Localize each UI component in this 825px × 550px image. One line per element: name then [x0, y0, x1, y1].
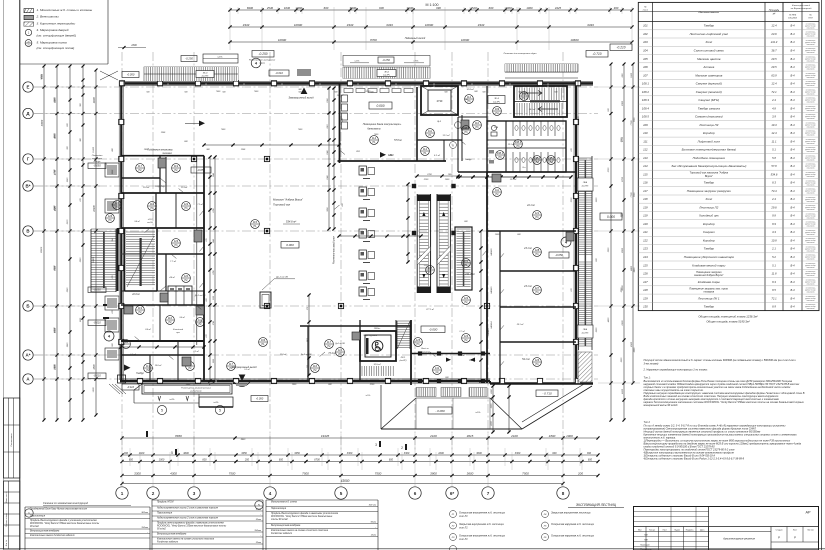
- svg-text:Подпись: Подпись: [686, 530, 694, 532]
- svg-text:118: 118: [643, 197, 648, 201]
- svg-text:опасности: опасности: [807, 209, 815, 211]
- bottom dimension chain totals: [122, 437, 598, 439]
- svg-text:600: 600: [379, 6, 384, 10]
- svg-text:10900: 10900: [278, 38, 287, 42]
- svg-text:534.6: 534.6: [771, 172, 778, 176]
- svg-text:12.4: 12.4: [771, 24, 777, 28]
- svg-text:В-4: В-4: [790, 296, 795, 300]
- left protrusion entry boxes: [105, 163, 119, 177]
- exterior wall left: [120, 81, 122, 380]
- top dimension chain 2: [230, 26, 632, 28]
- svg-text:-0.250: -0.250: [185, 57, 193, 61]
- svg-text:опасности: опасности: [807, 52, 815, 54]
- svg-text:125: 125: [416, 338, 421, 342]
- room tag 111: [196, 318, 205, 327]
- svg-text:не категори-: не категори-: [806, 114, 816, 116]
- svg-text:3300: 3300: [134, 471, 141, 475]
- svg-text:300: 300: [124, 452, 129, 455]
- svg-text:Решетки для вытирания обуви: Решетки для вытирания обуви: [504, 52, 538, 55]
- exterior wall top: [120, 82, 593, 85]
- svg-text:Тамбур: Тамбур: [704, 305, 715, 309]
- svg-text:Изм: Изм: [638, 530, 642, 532]
- sheet border: [19, 0, 21, 550]
- svg-text:111: 111: [495, 188, 499, 192]
- room 111/112 partition: [417, 139, 462, 141]
- svg-text:Лифтовой холл: Лифтовой холл: [697, 139, 721, 143]
- svg-text:109: 109: [522, 92, 527, 96]
- svg-text:5: 5: [171, 451, 173, 455]
- bottom big canopy trapezoid: [381, 428, 522, 430]
- svg-text:7700: 7700: [631, 120, 633, 126]
- svg-text:В-4: В-4: [790, 82, 795, 86]
- extra tags: [426, 266, 435, 275]
- vent shafts dark: [158, 158, 166, 168]
- svg-text:108.3: 108.3: [642, 98, 649, 102]
- svg-text:руемые по взр.: руемые по взр.: [804, 248, 816, 250]
- bottom wall inner line: [120, 378, 490, 380]
- portico recessed wall: [411, 353, 490, 355]
- svg-text:2760: 2760: [426, 174, 432, 176]
- svg-text:30000: 30000: [41, 246, 43, 253]
- svg-text:Холл: Холл: [704, 40, 712, 44]
- svg-text:-0.050: -0.050: [197, 168, 205, 172]
- svg-text:4500: 4500: [53, 133, 56, 139]
- svg-text:ШМБ14: ШМБ14: [490, 321, 493, 329]
- svg-text:В-4: В-4: [790, 32, 795, 36]
- svg-text:5: 5: [161, 409, 163, 413]
- svg-text:6900: 6900: [631, 341, 633, 347]
- svg-text:5.2 м²: 5.2 м²: [130, 353, 136, 356]
- svg-text:опасности: опасности: [807, 77, 815, 79]
- svg-text:Салон сотовой связи: Салон сотовой связи: [694, 49, 725, 53]
- svg-text:В-4: В-4: [790, 106, 795, 110]
- svg-text:Профиль Вентилируемого фасада: Профиль Вентилируемого фасада с навесным…: [271, 512, 338, 515]
- svg-text:опасности: опасности: [807, 143, 815, 145]
- svg-text:113: 113: [643, 156, 648, 160]
- svg-text:тележек: тележек: [162, 153, 173, 155]
- svg-text:Санузел: Санузел: [703, 230, 715, 234]
- svg-text:8.3: 8.3: [772, 181, 776, 185]
- svg-text:5000: 5000: [54, 327, 56, 333]
- svg-text:3300: 3300: [347, 452, 353, 455]
- svg-text:Надземный жилой: Надземный жилой: [405, 37, 426, 40]
- interior dim chain near escalators: [407, 184, 409, 262]
- svg-text:122: 122: [464, 296, 469, 300]
- svg-text:600: 600: [588, 458, 593, 461]
- svg-text:не категори-: не категори-: [806, 98, 816, 100]
- interior h chain cluster bottom: [121, 346, 204, 348]
- room tag 120: [182, 274, 191, 283]
- svg-text:123: 123: [643, 247, 648, 251]
- svg-text:5.1 м²: 5.1 м²: [244, 368, 250, 371]
- svg-text:122: 122: [184, 202, 189, 206]
- svg-text:3300: 3300: [515, 452, 521, 455]
- svg-text:Санузел (мужской): Санузел (мужской): [696, 82, 722, 86]
- svg-text:В-4: В-4: [790, 148, 795, 152]
- svg-text:ЛБ4: ЛБ4: [582, 328, 588, 331]
- svg-text:Тамбур: Тамбур: [136, 373, 145, 375]
- svg-text:опасности: опасности: [807, 242, 815, 244]
- svg-text:19.3 м²: 19.3 м²: [529, 108, 536, 111]
- svg-text:108.1: 108.1: [534, 156, 541, 160]
- svg-text:29.6: 29.6: [770, 205, 777, 209]
- svg-text:ШМБ15: ШМБ15: [491, 286, 493, 294]
- top wall inner line: [120, 80, 593, 82]
- section cut marks bottom: [146, 431, 148, 437]
- misc bottom dims verticals: [492, 386, 494, 432]
- svg-text:НВ1: НВ1: [388, 153, 394, 157]
- svg-text:300мм: 300мм: [141, 512, 148, 514]
- top dimension chain 3: [230, 41, 632, 43]
- svg-text:Холодный цех: Холодный цех: [698, 214, 719, 218]
- svg-text:57.8 м²: 57.8 м²: [394, 139, 402, 142]
- axis letter circles left: [23, 82, 33, 92]
- cluster lower walls: [121, 253, 204, 255]
- svg-text:5.2: 5.2: [772, 255, 776, 259]
- svg-text:8.3: 8.3: [772, 280, 776, 284]
- svg-text:Композитные панели Fundermax к: Композитные панели Fundermax кабелит: [30, 534, 75, 537]
- svg-text:руемые по взр.: руемые по взр.: [804, 273, 816, 275]
- svg-text:опасности: опасности: [807, 127, 815, 129]
- left dimension chains: [43, 66, 45, 420]
- svg-text:129: 129: [643, 296, 648, 300]
- svg-text:Санузел (МГН): Санузел (МГН): [698, 98, 719, 102]
- svg-text:1: 1: [121, 491, 124, 496]
- detail table 3: [265, 500, 267, 550]
- svg-text:В-4: В-4: [790, 164, 795, 168]
- svg-text:6: 6: [414, 491, 417, 496]
- svg-text:Аптека: Аптека: [702, 65, 714, 69]
- svg-text:руемые по взр.: руемые по взр.: [804, 100, 816, 102]
- room tag 124: [113, 201, 122, 210]
- svg-text:12.1 м²: 12.1 м²: [508, 143, 515, 146]
- svg-text:В-4: В-4: [790, 222, 795, 226]
- svg-text:Кладовая тары: Кладовая тары: [698, 280, 721, 284]
- svg-text:руемые по взр.: руемые по взр.: [804, 75, 816, 77]
- svg-text:4300: 4300: [170, 471, 177, 475]
- svg-text:10900: 10900: [294, 23, 303, 27]
- legend swatch brick: [24, 22, 34, 26]
- svg-text:В-4: В-4: [790, 230, 795, 234]
- svg-text:Дв-1 см ОВ: Дв-1 см ОВ: [194, 295, 206, 297]
- top level boxes: [252, 51, 274, 58]
- svg-text:2.4: 2.4: [771, 98, 776, 102]
- svg-text:12мм: 12мм: [256, 542, 262, 544]
- bank shelving row against top wall: [344, 89, 353, 93]
- svg-text:-0.250: -0.250: [258, 52, 267, 56]
- svg-text:Монолитная ж.б. стена: Монолитная ж.б. стена: [271, 502, 297, 504]
- top dimension chain 1: [230, 9, 632, 11]
- svg-text:Холодный: Холодный: [172, 328, 184, 331]
- svg-text:В-4: В-4: [790, 305, 795, 309]
- svg-text:600: 600: [489, 6, 494, 10]
- cluster walls y305-381: [121, 304, 204, 306]
- axis circle 4 top: [251, 58, 261, 68]
- svg-text:Листов: Листов: [807, 530, 814, 532]
- wall columns top: [119, 81, 124, 86]
- svg-text:опасности: опасности: [807, 300, 815, 302]
- svg-text:руемые по взр.: руемые по взр.: [804, 232, 816, 234]
- entry grate top-mid: [343, 67, 430, 78]
- svg-text:Тамбур санузла: Тамбур санузла: [698, 106, 720, 110]
- svg-text:5.1: 5.1: [772, 148, 776, 152]
- svg-text:Инв. №: Инв. №: [5, 540, 8, 546]
- door leaf arcs in cluster: [160, 178, 165, 183]
- svg-text:В-4: В-4: [790, 98, 795, 102]
- svg-text:2400: 2400: [53, 364, 56, 371]
- svg-text:руемые по взр.: руемые по взр.: [804, 50, 816, 52]
- svg-text:не категори-: не категори-: [806, 131, 816, 133]
- svg-text:121: 121: [535, 211, 540, 215]
- svg-text:руемые по взр.: руемые по взр.: [804, 125, 816, 127]
- svg-text:(см.КР): (см.КР): [582, 186, 589, 188]
- svg-text:50мм: 50мм: [371, 521, 377, 523]
- svg-text:119: 119: [643, 214, 648, 218]
- svg-text:3900: 3900: [430, 471, 437, 475]
- svg-text:В-4: В-4: [790, 272, 795, 276]
- svg-text:8.9: 8.9: [772, 305, 776, 309]
- svg-text:руемые по взр.: руемые по взр.: [804, 174, 816, 176]
- svg-text:не категори-: не категори-: [806, 40, 816, 42]
- svg-text:Общая площадь этажа 5190.3м²: Общая площадь этажа 5190.3м²: [706, 320, 750, 324]
- external stair right: [578, 156, 580, 350]
- svg-text:руемые по взр.: руемые по взр.: [804, 166, 816, 168]
- svg-text:опасности: опасности: [807, 151, 815, 153]
- svg-text:2: 2: [152, 491, 155, 496]
- svg-text:0.000: 0.000: [607, 215, 615, 219]
- svg-text:7.1 м²: 7.1 м²: [197, 203, 203, 206]
- svg-text:3615: 3615: [467, 434, 474, 438]
- svg-text:11600: 11600: [94, 96, 96, 103]
- svg-text:Эвакуационный выход: Эвакуационный выход: [288, 97, 314, 100]
- exterior wall bottom right wing: [490, 382, 593, 385]
- svg-text:-0.050: -0.050: [127, 73, 135, 77]
- svg-text:- 0.710: - 0.710: [542, 392, 552, 396]
- svg-text:ROCKWOOL "Venty Баттс"150мм: ROCKWOOL "Venty Баттс"150мм жесткие база…: [271, 515, 333, 518]
- svg-text:2100: 2100: [491, 403, 493, 409]
- svg-text:21: 21: [27, 45, 29, 47]
- section cut marks left: [103, 304, 109, 306]
- svg-text:126: 126: [108, 214, 113, 218]
- legend door mark circle: [25, 29, 31, 35]
- svg-text:В-4: В-4: [790, 255, 795, 259]
- svg-text:120: 120: [643, 222, 648, 226]
- room tag 123: [172, 239, 181, 248]
- svg-text:119: 119: [138, 306, 143, 310]
- right dimension chains: [610, 64, 612, 420]
- svg-text:не категори-: не категори-: [806, 238, 816, 240]
- svg-text:В-4: В-4: [790, 115, 795, 119]
- svg-text:3333: 3333: [478, 23, 485, 27]
- svg-text:5000: 5000: [41, 74, 43, 80]
- svg-text:В-4: В-4: [790, 139, 795, 143]
- svg-text:опасности: опасности: [807, 308, 815, 310]
- svg-text:А*: А*: [26, 353, 31, 358]
- svg-text:2540: 2540: [266, 6, 274, 10]
- svg-text:125: 125: [643, 263, 648, 267]
- right wing west wall: [486, 172, 488, 383]
- svg-text:10.8 м²: 10.8 м²: [155, 364, 162, 367]
- svg-text:Санузел (персонал): Санузел (персонал): [695, 115, 723, 119]
- svg-text:В-4: В-4: [790, 73, 795, 77]
- dim chain x309: [308, 295, 310, 375]
- svg-text:не категори-: не категори-: [806, 296, 816, 298]
- svg-text:Лестнично-лифтовой узел: Лестнично-лифтовой узел: [688, 32, 728, 36]
- svg-text:Ветрозащитная мембрана: Ветрозащитная мембрана: [157, 534, 187, 536]
- svg-text:2300: 2300: [130, 44, 137, 47]
- svg-text:не категори-: не категори-: [806, 73, 816, 75]
- svg-text:4.8 м²: 4.8 м²: [169, 276, 175, 279]
- svg-text:72.1: 72.1: [771, 90, 777, 94]
- title block frame: [634, 507, 819, 550]
- interior dim chain along bank wall: [333, 88, 335, 229]
- svg-text:5. Маркировка полов: 5. Маркировка полов: [37, 40, 68, 44]
- svg-text:опасности: опасности: [807, 184, 815, 186]
- svg-text:Профиль НГ1М: Профиль НГ1М: [157, 501, 173, 504]
- room tag 126: [106, 214, 115, 223]
- svg-text:руемые по взр.: руемые по взр.: [804, 257, 816, 259]
- svg-text:не категори-: не категори-: [806, 279, 816, 281]
- svg-text:107: 107: [643, 73, 648, 77]
- svg-text:не категори-: не категори-: [806, 197, 816, 199]
- svg-text:i=6%: i=6%: [355, 61, 360, 63]
- svg-text:11.1: 11.1: [771, 139, 777, 143]
- right wing room tags: [533, 211, 542, 220]
- svg-text:2100: 2100: [423, 179, 429, 181]
- extension lines top chain ticks: [237, 7, 239, 14]
- svg-text:4. Маркировка дверей: 4. Маркировка дверей: [37, 28, 69, 32]
- svg-text:1000: 1000: [566, 434, 573, 438]
- cluster mid walls: [121, 227, 204, 229]
- svg-text:Проверил: Проверил: [640, 545, 650, 547]
- svg-text:108.2: 108.2: [548, 156, 555, 160]
- svg-text:123: 123: [174, 239, 179, 243]
- svg-text:не категори-: не категори-: [806, 230, 816, 232]
- svg-text:11.9 м²: 11.9 м²: [181, 186, 188, 189]
- svg-text:11.8: 11.8: [771, 272, 777, 276]
- svg-text:руемые по взр.: руемые по взр.: [804, 281, 816, 283]
- svg-text:опасности: опасности: [807, 176, 815, 178]
- atm row: [342, 95, 348, 102]
- svg-text:Магазин цветов: Магазин цветов: [697, 57, 721, 61]
- svg-text:73.4: 73.4: [771, 189, 777, 193]
- svg-text:Fundermax кабелит: Fundermax кабелит: [157, 541, 178, 544]
- detail table 1: [24, 507, 26, 550]
- svg-text:опасности: опасности: [807, 93, 815, 95]
- checkout desks row: [359, 166, 367, 175]
- svg-text:11600: 11600: [93, 146, 95, 153]
- svg-text:2. Вентшахты: 2. Вентшахты: [36, 15, 60, 19]
- svg-text:Закрытая внутренняя лестница: Закрытая внутренняя лестница: [551, 512, 591, 515]
- svg-text:руемые по взр.: руемые по взр.: [804, 58, 816, 60]
- svg-text:товаров: товаров: [704, 291, 715, 294]
- svg-text:1500: 1500: [631, 72, 633, 78]
- narrow stair right of escalator: [455, 227, 472, 290]
- svg-text:опасности: опасности: [807, 135, 815, 137]
- svg-text:128: 128: [535, 248, 540, 252]
- corridor walls between elevator and stair: [486, 86, 488, 121]
- svg-text:(см.КР): (см.КР): [202, 76, 209, 78]
- svg-text:опасности: опасности: [807, 168, 815, 170]
- svg-text:9.8: 9.8: [772, 214, 776, 218]
- svg-text:не категори-: не категори-: [806, 123, 816, 125]
- svg-text:1.7 м²: 1.7 м²: [459, 330, 465, 333]
- svg-text:АР: АР: [805, 511, 811, 515]
- svg-text:121: 121: [643, 230, 648, 234]
- svg-text:1920: 1920: [139, 452, 145, 455]
- svg-text:122: 122: [643, 239, 648, 243]
- svg-text:Кол.уч: Кол.уч: [649, 530, 655, 532]
- wall below wc: [458, 171, 576, 173]
- svg-text:2100: 2100: [429, 434, 437, 438]
- svg-text:1800: 1800: [549, 434, 556, 438]
- wc block outline: [487, 121, 566, 172]
- svg-text:111: 111: [428, 129, 432, 133]
- svg-text:110: 110: [643, 131, 648, 135]
- svg-text:7.7 м²: 7.7 м²: [170, 260, 176, 263]
- cluster corridor walls: [121, 177, 160, 179]
- svg-text:11.5 м²: 11.5 м²: [395, 160, 402, 163]
- escalator columns: [412, 184, 416, 188]
- svg-text:4425: 4425: [555, 6, 562, 10]
- svg-text:2180: 2180: [491, 388, 493, 394]
- svg-text:500: 500: [555, 92, 558, 94]
- svg-text:117: 117: [138, 164, 143, 168]
- svg-text:600: 600: [552, 452, 557, 455]
- svg-text:1000: 1000: [526, 6, 533, 10]
- svg-text:3.9: 3.9: [772, 115, 776, 119]
- svg-text:ПБ2: ПБ2: [123, 340, 129, 344]
- svg-text:не категори-: не категори-: [806, 180, 816, 182]
- svg-text:6900: 6900: [54, 97, 56, 103]
- svg-text:опасности: опасности: [807, 85, 815, 87]
- stair item Л2: [450, 522, 457, 529]
- svg-text:руемые по взр.: руемые по взр.: [804, 141, 816, 143]
- svg-text:Несущий остов здания-монолитны: Несущий остов здания-монолитный ж.б. кар…: [644, 358, 797, 362]
- svg-text:Магазин "Азбука Вкуса": Магазин "Азбука Вкуса": [273, 198, 304, 202]
- svg-text:В-4: В-4: [790, 205, 795, 209]
- svg-text:не категори-: не категори-: [806, 205, 816, 207]
- svg-text:4.8: 4.8: [772, 106, 776, 110]
- svg-text:73.4 м²: 73.4 м²: [328, 352, 336, 355]
- svg-text:руемые по взр.: руемые по взр.: [804, 25, 816, 27]
- svg-text:Кладовая мясной тары: Кладовая мясной тары: [692, 263, 726, 267]
- svg-text:29.5: 29.5: [770, 57, 777, 61]
- svg-text:115: 115: [643, 172, 648, 176]
- svg-text:Коридор: Коридор: [703, 131, 715, 135]
- svg-text:109: 109: [643, 123, 648, 127]
- svg-text:600: 600: [202, 458, 207, 461]
- svg-text:-0.050: -0.050: [93, 164, 101, 168]
- svg-text:500 мм: 500 мм: [369, 504, 377, 506]
- svg-text:0.000: 0.000: [377, 104, 385, 108]
- svg-text:2170: 2170: [67, 219, 69, 225]
- svg-text:ЗК-3: ЗК-3: [203, 73, 208, 75]
- svg-text:30000: 30000: [42, 119, 44, 126]
- svg-text:ЛК-1: ЛК-1: [400, 357, 407, 359]
- svg-text:В: В: [26, 229, 29, 234]
- svg-text:1. Монолитные ж.б. стены и кол: 1. Монолитные ж.б. стены и колонны: [37, 8, 93, 12]
- svg-text:11.8 м²: 11.8 м²: [280, 353, 287, 356]
- svg-text:-0.010: -0.010: [93, 321, 101, 325]
- svg-text:105-2003: 105-2003: [788, 18, 797, 20]
- entry grate top-left: [144, 67, 238, 81]
- svg-text:УВ1: УВ1: [356, 151, 360, 153]
- room tag ПБ2: [122, 340, 131, 349]
- room tag 111: [186, 362, 195, 371]
- svg-text:(см.КР): (см.КР): [383, 75, 390, 77]
- svg-text:не категори-: не категори-: [806, 304, 816, 306]
